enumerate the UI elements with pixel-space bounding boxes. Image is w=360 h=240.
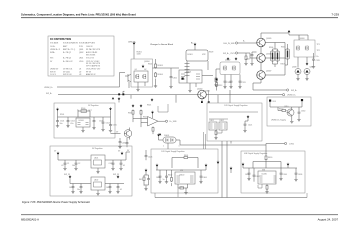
ground row1 a (63, 167, 66, 170)
wire cap x127 (126, 138, 128, 147)
ground row1 b (74, 167, 77, 170)
svg-text:R421: R421 (139, 179, 143, 181)
cap VHF a (248, 172, 251, 176)
svg-text:U301: U301 (210, 120, 214, 122)
svg-text:CHG_IN_SNS: CHG_IN_SNS (223, 43, 235, 45)
svg-text:C330: C330 (301, 111, 305, 113)
svg-text:C431: C431 (245, 174, 249, 176)
regulator IC U0430 (258, 171, 276, 184)
ground terminal2 branch (244, 62, 247, 65)
wire VHF a (248, 168, 250, 178)
svg-text:SWB+: SWB+ (50, 52, 55, 54)
ground 1.8V a (158, 181, 161, 184)
pins U0500 (78, 123, 89, 125)
svg-text:1.8 V D: 1.8 V D (50, 74, 57, 76)
wire 1.8V b (166, 170, 168, 181)
svg-text:3V U401: 3V U401 (63, 71, 70, 73)
svg-text:C306: C306 (173, 78, 177, 80)
pass transistor Q2 (257, 54, 266, 63)
feedback loop above U0500 (78, 111, 90, 117)
ground under C0315 (312, 65, 315, 68)
svg-text:TP2: TP2 (317, 50, 320, 52)
black square tap at x217 (216, 79, 218, 81)
svg-text:Schematics, Component Location: Schematics, Component Location Diagrams,… (21, 13, 136, 17)
wire terminal2 branch down (245, 53, 247, 55)
svg-text:RF PA CIRCUITS: RF PA CIRCUITS (86, 48, 101, 51)
power arrow VHF right (287, 163, 290, 166)
terminal circle UNSWB out (283, 94, 285, 96)
wire arrow VHF right (287, 166, 289, 168)
svg-text:R401: R401 (184, 155, 188, 157)
feedback loop right 1.8V (189, 158, 198, 169)
svg-text:R313: R313 (218, 85, 222, 87)
cap VHF c right (280, 172, 283, 176)
wire Q2 right (265, 57, 285, 59)
wire arrow 1.8V left (156, 167, 158, 170)
capacitor C0306 (170, 75, 173, 79)
cap row1 c (112, 162, 115, 166)
wire resistor pair top (273, 43, 278, 68)
svg-text:U801: U801 (79, 58, 83, 60)
fet 1 in Q0302 (223, 66, 226, 71)
footer rule (21, 214, 338, 216)
feedback resistor 1.8V (183, 157, 189, 159)
svg-text:SW_B+_CNTL: SW_B+_CNTL (223, 53, 235, 55)
resistor below op-amp (152, 127, 154, 133)
terminal RX_CHG circle (235, 42, 237, 44)
terminal circle 1.8VD (285, 142, 287, 144)
power arrow 3V row1 right (121, 152, 124, 155)
svg-text:R0303: R0303 (158, 65, 163, 67)
ground under C0501 (56, 125, 59, 128)
rail SW B+ wire (58, 94, 198, 96)
wire arrow 1.8V right (205, 167, 207, 170)
fet 1 in Q0304 (136, 74, 139, 79)
ground under U0401 (97, 168, 99, 171)
svg-text:U0301: U0301 (186, 72, 191, 74)
ground under U0500 (81, 129, 84, 132)
svg-text:CHG IN: CHG IN (86, 46, 93, 48)
wire C0315 (313, 53, 315, 65)
ground row2 b (79, 191, 82, 194)
svg-text:5V Regulator: 5V Regulator (88, 104, 99, 107)
svg-text:Q0305: Q0305 (266, 38, 271, 40)
svg-text:Q309: Q309 (310, 67, 314, 69)
ground row2 a (71, 191, 74, 194)
cap VHF d right (295, 172, 298, 176)
svg-text:B+ PB Q3: B+ PB Q3 (63, 58, 71, 60)
svg-text:C425: C425 (122, 143, 126, 145)
wire VHF c (280, 168, 282, 178)
power arrow pair above op-amp area 1 (132, 104, 135, 107)
wire across y143 (231, 141, 284, 144)
resistor under arrow 2 (140, 110, 142, 116)
transistor glyph left of Q0304 (125, 74, 131, 82)
diode 1 glyph (166, 139, 169, 142)
svg-text:R401: R401 (206, 91, 210, 93)
wire Q0302 bottom legs (225, 75, 240, 80)
svg-text:CHG_B+: CHG_B+ (128, 42, 137, 44)
svg-text:C315: C315 (316, 60, 320, 62)
regulator IC U0400 (175, 172, 195, 184)
pins U0400 right (190, 176, 194, 182)
wire transistor bl (129, 128, 131, 140)
svg-text:R307: R307 (281, 64, 285, 66)
svg-text:SW 3V: SW 3V (50, 71, 56, 73)
black square 9V3 (269, 100, 271, 102)
pins U0430 left (260, 176, 263, 182)
loop wire box top charger (186, 50, 208, 61)
wire x146 vertical (145, 172, 147, 175)
base cap C0307 (251, 53, 254, 57)
inner package box of Q0304 (134, 71, 148, 82)
svg-text:1u: 1u (163, 179, 165, 181)
wire op-amp top power (152, 114, 154, 118)
svg-text:R500: R500 (81, 108, 85, 110)
ground under base cap (250, 62, 253, 65)
diode 2 glyph (171, 139, 174, 142)
svg-text:R318: R318 (128, 113, 132, 115)
DC DISTRIBUTION table box (48, 36, 114, 76)
svg-text:C2: C2 (78, 163, 80, 165)
wire cap C0306 (170, 68, 172, 85)
wire resistor below U0430 (266, 184, 268, 191)
svg-text:CNTL/VR 3V CKT: CNTL/VR 3V CKT (86, 69, 101, 71)
svg-text:Q0307: Q0307 (266, 71, 271, 73)
svg-text:.01u: .01u (70, 123, 74, 125)
UNSW B+ Supply block (267, 97, 311, 126)
wire 5V out arrow (110, 111, 112, 118)
5V output exit wire (111, 133, 121, 135)
regulator IC U0401 (91, 155, 105, 168)
svg-text:SW 3V U4: SW 3V U4 (63, 74, 71, 76)
wire CHG_IN down (133, 45, 135, 59)
wire C0503 (93, 117, 95, 127)
svg-text:B+: B+ (317, 56, 319, 58)
wire Q1 to Q2 (260, 47, 262, 54)
resistor R0315 dark (287, 51, 288, 58)
pins signal IC A (210, 124, 216, 128)
resistor chain right of Q0304 (155, 63, 157, 69)
power arrow 3V row2 right (117, 175, 120, 178)
ground below signal ICs (214, 137, 217, 140)
wire VHF d (295, 168, 297, 178)
components between blocks x146 (145, 169, 148, 172)
power input CHG_IN arrow (133, 42, 136, 45)
svg-text:7-239: 7-239 (331, 13, 339, 17)
cap row1 a (64, 162, 67, 166)
svg-text:CH B+: CH B+ (50, 46, 55, 48)
black cap top right (301, 99, 303, 101)
wire below x217 resistor (216, 87, 218, 90)
svg-text:Q801: Q801 (79, 49, 83, 51)
svg-text:B+ REG U2: B+ REG U2 (63, 61, 72, 63)
svg-text:U401: U401 (94, 158, 98, 160)
rail VHF (243, 167, 297, 169)
regulator IC U0402 (91, 177, 105, 190)
svg-text:SW_B+: SW_B+ (46, 93, 52, 95)
signal IC B (219, 122, 227, 130)
VHF Digital Supply Regulator block (241, 151, 305, 193)
regulator IC U0500 (76, 118, 90, 127)
ground VHF d (294, 178, 297, 181)
svg-text:R430: R430 (268, 157, 272, 159)
wire cap x120 (119, 138, 121, 146)
svg-text:1.8VD: 1.8VD (289, 144, 295, 146)
wire 1.8VD entry down (265, 144, 267, 156)
capacitor C0315 (312, 58, 315, 62)
pins U0400 left (177, 176, 181, 182)
svg-text:R321: R321 (147, 105, 151, 107)
wire from arrow x119 (118, 101, 120, 103)
wire row2 a (72, 184, 74, 191)
ground row2 d (116, 191, 119, 194)
wire row1 c (112, 160, 114, 167)
cap signal right (244, 123, 247, 127)
signal block rail (209, 111, 258, 113)
svg-text:Q0302: Q0302 (225, 60, 230, 62)
loop below U0430 (258, 184, 262, 188)
wire Q1 collector right (265, 43, 285, 76)
wire row2 c (109, 184, 111, 191)
wire under Q0302 left cap (224, 84, 226, 86)
wire black cap (301, 101, 303, 107)
power arrow op-amp (151, 111, 154, 114)
svg-text:U302: U302 (220, 120, 224, 122)
ground under C0504 (101, 128, 104, 131)
wire Q0303 bottom legs (298, 57, 307, 68)
power input B+ arrow (194, 43, 197, 46)
junction square rail2 b (122, 93, 124, 95)
wire C0502 (67, 117, 69, 125)
svg-text:C436: C436 (298, 174, 302, 176)
svg-text:3: 3 (179, 146, 180, 148)
svg-text:VR2: VR2 (202, 54, 206, 56)
wire row1 d (120, 160, 122, 167)
resistor below x217 tap (216, 82, 218, 88)
svg-text:C413: C413 (69, 187, 73, 189)
wire VHF bottom drop (306, 193, 308, 198)
ground VHF c (279, 178, 282, 181)
svg-text:UNSW 3V: UNSW 3V (50, 69, 59, 71)
ground under Q0308 (296, 78, 299, 81)
inner box U0402 (94, 182, 102, 187)
cap row2 c (109, 185, 112, 189)
power arrow inside Q0304 box (142, 65, 145, 68)
svg-text:ABACUS IC: ABACUS IC (86, 73, 96, 76)
svg-text:Q310: Q310 (284, 106, 288, 108)
svg-text:B+_SNS: B+_SNS (170, 121, 178, 123)
wire row1 a (64, 160, 66, 167)
svg-text:10u: 10u (60, 123, 63, 125)
signal IC A (209, 122, 217, 130)
wire arrow2 down (141, 115, 146, 127)
signal block rail2 (209, 118, 228, 120)
svg-text:R315: R315 (281, 47, 285, 49)
dual diode package D0401 (163, 137, 176, 143)
svg-text:C406: C406 (203, 177, 207, 179)
svg-text:.01: .01 (61, 165, 64, 167)
connector ladder bars (185, 61, 190, 83)
wire op-amp output (158, 120, 165, 122)
svg-text:Charger In Sense Block: Charger In Sense Block (150, 43, 174, 46)
cap C0503 (93, 119, 96, 123)
dual FET box Q0303 (294, 40, 315, 57)
svg-text:Figure 7-88. PMLN4000M Device: Figure 7-88. PMLN4000M Device Power Supp… (22, 200, 91, 204)
wire row2 b (80, 184, 82, 191)
resistor below signal ICs (215, 130, 217, 136)
wire cap x146 upper (145, 150, 147, 160)
svg-text:VOLTAGE: VOLTAGE (50, 41, 59, 44)
transistor circle Q0402 (198, 90, 207, 99)
wire op-amp feedback (158, 104, 168, 112)
3V Regulator block (50, 146, 132, 196)
power arrow 1.8V left (156, 164, 159, 167)
vertical bus x222 to bottom (221, 141, 223, 198)
svg-text:C505: C505 (113, 125, 117, 127)
feedback loop VHF (253, 162, 281, 169)
1.8V Digital Supply Regulator block (151, 149, 218, 193)
cap under Q0302 right (230, 80, 233, 84)
wire y90 feed (253, 83, 286, 90)
svg-text:C426: C426 (148, 157, 152, 159)
svg-text:.01: .01 (123, 165, 126, 167)
svg-text:9V3: 9V3 (50, 58, 53, 60)
value labels scatter (60, 41, 320, 192)
svg-text:U3: U3 (79, 74, 81, 76)
rail 1.8V block (156, 169, 206, 171)
svg-text:SECTIONS: SECTIONS (86, 54, 96, 56)
svg-text:1.8V Signal Supply Regulator: 1.8V Signal Supply Regulator (224, 104, 248, 107)
pins of U0301 (181, 74, 200, 79)
bottom bus wire (155, 197, 307, 199)
svg-text:BATT/B+ PC Q: BATT/B+ PC Q (63, 48, 76, 51)
pins signal IC B (220, 124, 226, 128)
wire x144/x148 join (144, 175, 149, 188)
svg-text:U1: U1 (79, 69, 81, 71)
power arrow pair above op-amp area 2 (140, 104, 143, 107)
wire rail2 drop x176 (175, 95, 177, 103)
wire Q0304 bottom to ground (138, 82, 145, 88)
ground under Q0304 (136, 88, 139, 91)
wire R0315 (285, 44, 288, 65)
junction dot Q0402 (201, 101, 203, 103)
power arrow at 1.8V block edge (217, 161, 220, 164)
svg-text:RF 3V: RF 3V (86, 71, 92, 73)
resistor below U0430 (266, 185, 268, 191)
svg-text:U500: U500 (79, 61, 83, 63)
svg-text:DC DISTRIBUTION: DC DISTRIBUTION (50, 38, 71, 41)
cap C0501 (56, 119, 59, 123)
cap row2 d (117, 185, 120, 189)
cap row2 a (72, 185, 75, 189)
transistor internals Q0310 (287, 110, 292, 115)
svg-text:Q0303: Q0303 (299, 38, 304, 40)
cap C0502 (67, 119, 70, 123)
wire terminal1 to Q1 (238, 42, 257, 44)
fet 2 in Q0303 (305, 46, 308, 51)
resistor chain right of Q0304 second (155, 72, 157, 78)
wire 3V row1 rail (58, 155, 126, 160)
ground below U0400 (184, 191, 187, 194)
svg-text:UNSW_B+: UNSW_B+ (44, 87, 53, 89)
transistor circle Q0310 (287, 109, 294, 116)
svg-text:5V REG U1: 5V REG U1 (63, 69, 72, 71)
ground under C0306 (169, 85, 172, 88)
svg-text:C504: C504 (106, 123, 110, 125)
svg-text:SW_3V: SW_3V (64, 174, 71, 176)
feedback loop wires 1.8V (172, 158, 183, 169)
power arrow in 5V block left (56, 108, 59, 111)
power arrow between blocks (230, 167, 233, 170)
short verticals left of signal block (204, 132, 206, 149)
terminal circle SWB out (287, 89, 289, 91)
svg-text:VOCO 5V: VOCO 5V (86, 58, 95, 60)
arrow under rail2 at x152 (151, 98, 154, 101)
svg-text:SOURCE/RATION: SOURCE/RATION (63, 41, 79, 44)
wire U0301 right (202, 61, 213, 76)
wire Q0310 collector (291, 107, 293, 120)
svg-text:C411: C411 (109, 163, 113, 165)
svg-text:R309: R309 (209, 52, 213, 54)
wire into diode package left (159, 137, 164, 140)
wire from arrow to FET box (289, 34, 308, 40)
5V Regulator block (54, 103, 115, 138)
caps below 5V block (119, 140, 122, 144)
cap 1.8V b (165, 175, 168, 179)
wire C0501 (57, 117, 59, 125)
cap x148 (147, 177, 150, 181)
op-amp input bars (146, 119, 148, 123)
ground under U0402 (97, 190, 99, 192)
svg-text:R402: R402 (168, 175, 172, 177)
wire VHF b (253, 168, 255, 182)
svg-text:1.8V Digital Supply Regulator: 1.8V Digital Supply Regulator (161, 150, 185, 153)
wire box1 to mid section (153, 67, 180, 69)
resistor terminal2 branch (245, 55, 247, 61)
dark mark below op-amp (159, 133, 162, 135)
wire 1.8V block bottom exit (177, 188, 179, 197)
wire C0505 (110, 117, 112, 129)
wire Q0402 down to block (201, 99, 203, 103)
svg-text:TP1: TP1 (317, 44, 320, 46)
pass transistor Q3 (257, 71, 266, 80)
transistor internals bottom left (124, 131, 129, 137)
power arrow under Q0303 (306, 62, 309, 65)
wire x209 drop (208, 90, 210, 103)
svg-text:9V3: 9V3 (273, 101, 276, 103)
svg-text:C311: C311 (242, 82, 246, 84)
black mark in U0301 (182, 78, 184, 80)
resistor left of U0400 (171, 177, 173, 183)
Signal Supply Regulator block (207, 103, 262, 141)
sense transistor circle Q0308 (295, 69, 301, 75)
wire Q3 bottom (253, 79, 261, 83)
svg-text:C421: C421 (248, 125, 252, 127)
rail UNSW B+ wire (57, 73, 125, 88)
wire 1.8V block bottom drop (154, 193, 156, 198)
cap at x240 (239, 80, 242, 84)
resistor under arrow 1 (132, 110, 134, 116)
transistor circle bottom left (124, 130, 132, 138)
wire 3V out corner (126, 152, 130, 160)
ground signal right (243, 129, 246, 132)
rail UNSW supply (270, 102, 302, 107)
wire Q2 to Q3 (260, 62, 262, 71)
wire under terminal2 resistor (245, 61, 247, 62)
wire U0500 bottom (82, 127, 84, 129)
ground under Q0310 (290, 120, 293, 123)
